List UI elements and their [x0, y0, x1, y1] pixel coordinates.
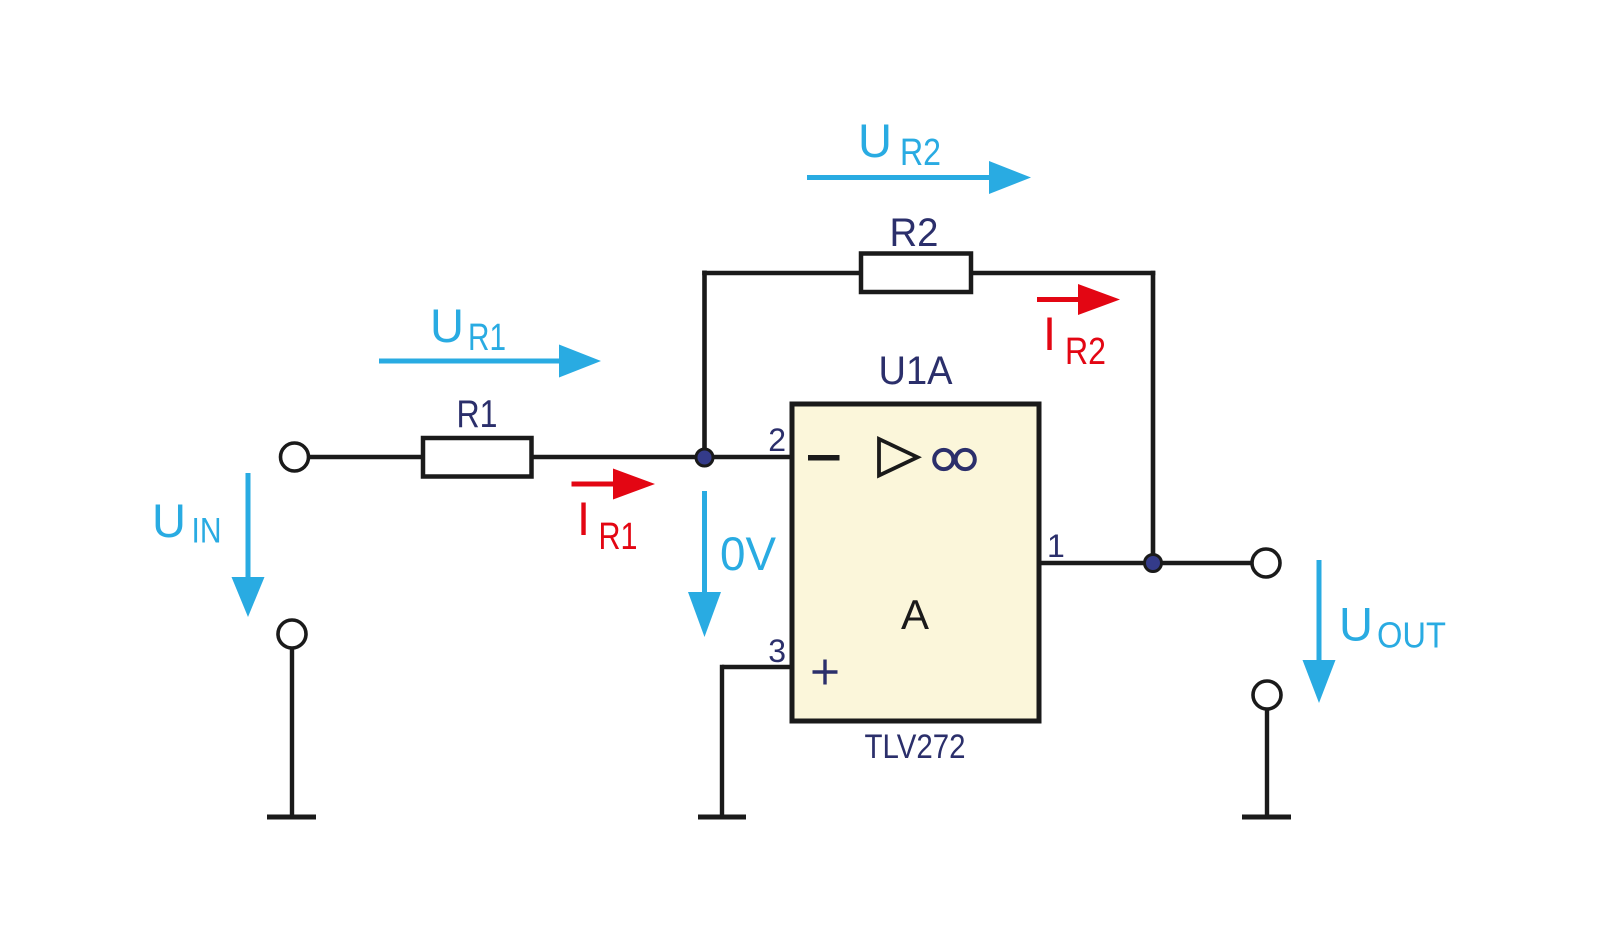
- arrow U_R2 (voltage across R2): [807, 161, 1031, 194]
- wire R2 to feedback vertical right: [971, 271, 1155, 276]
- label I_R1: [577, 492, 638, 558]
- wire R1 to op-amp pin 2: [532, 455, 793, 459]
- op-amp triangle symbol: [879, 439, 918, 476]
- svg-text:1: 1: [1047, 528, 1065, 564]
- svg-text:TLV272: TLV272: [865, 728, 966, 766]
- label U_OUT: [1339, 598, 1446, 656]
- label U_R1: [430, 299, 506, 359]
- wire feedback vertical left: [702, 271, 707, 458]
- svg-text:A: A: [901, 591, 929, 638]
- resistor R1: [423, 438, 532, 477]
- svg-text:R1: R1: [599, 516, 638, 558]
- wire lower input terminal to ground: [290, 647, 294, 815]
- ground (input): [267, 815, 316, 820]
- svg-text:U1A: U1A: [879, 349, 953, 393]
- wire pin 3 horizontal: [722, 665, 792, 669]
- svg-text:U: U: [1339, 598, 1373, 651]
- svg-text:0V: 0V: [720, 527, 777, 580]
- arrow 0V (virtual ground voltage): [688, 491, 721, 637]
- label U_IN: [152, 494, 222, 551]
- lower input terminal (circle): [278, 620, 306, 648]
- label I_R2: [1043, 307, 1106, 373]
- ground (pin 3): [698, 815, 746, 820]
- svg-text:2: 2: [768, 422, 786, 458]
- arrow U_OUT (output voltage): [1303, 560, 1336, 703]
- infinity symbol (open-loop gain): [934, 450, 975, 469]
- wire feedback top left to R2: [702, 271, 861, 276]
- svg-text:R2: R2: [890, 211, 939, 255]
- svg-text:U: U: [152, 494, 186, 547]
- minus sign (inverting input): [808, 455, 840, 461]
- input terminal (circle): [281, 443, 309, 471]
- svg-text:OUT: OUT: [1377, 615, 1446, 656]
- op-amp U1A body: [792, 404, 1039, 721]
- svg-text:IN: IN: [192, 512, 222, 551]
- node A (inverting input junction dot): [696, 449, 713, 466]
- wire lower output terminal to ground: [1265, 708, 1269, 815]
- svg-text:I: I: [577, 492, 590, 545]
- svg-text:I: I: [1043, 307, 1056, 360]
- svg-text:R1: R1: [468, 317, 506, 359]
- svg-text:R1: R1: [457, 393, 498, 436]
- plus sign (non-inverting input): [813, 660, 838, 685]
- svg-text:U: U: [430, 299, 464, 352]
- output terminal (circle): [1252, 549, 1280, 577]
- arrow I_R1 (current through R1): [572, 469, 656, 500]
- wire op-amp output to output terminal: [1039, 561, 1252, 565]
- svg-text:R2: R2: [900, 132, 941, 174]
- svg-text:3: 3: [768, 633, 786, 669]
- ground (output): [1242, 815, 1291, 820]
- arrow U_IN (input voltage): [232, 473, 265, 617]
- arrow U_R1 (voltage across R1): [379, 345, 601, 378]
- resistor R2: [861, 254, 971, 293]
- svg-text:U: U: [858, 114, 892, 167]
- wire input terminal to R1: [308, 455, 424, 459]
- svg-text:R2: R2: [1065, 331, 1106, 373]
- node output junction dot: [1145, 555, 1162, 572]
- lower output terminal (circle): [1253, 681, 1281, 709]
- arrow I_R2 (current through R2): [1037, 284, 1120, 315]
- wire pin 3 ground vertical: [720, 665, 724, 815]
- wire feedback vertical right down to output: [1151, 271, 1156, 563]
- label U_R2: [858, 114, 941, 174]
